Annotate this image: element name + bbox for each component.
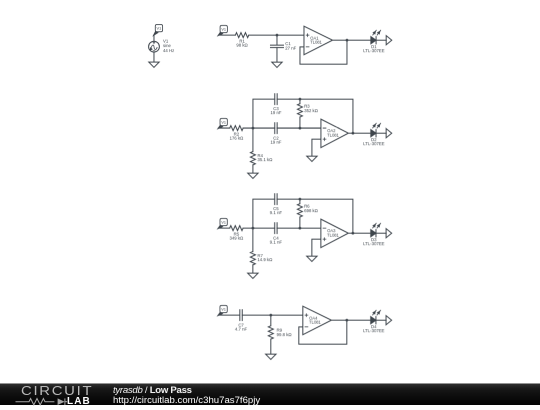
wire C1 to ground (276, 48, 278, 63)
wire feedback rail right segment (277, 99, 353, 133)
wire LED D1 to output terminal (376, 39, 386, 41)
resistor R7 14.9 k&#937; (250, 228, 273, 265)
footer bar (0, 383, 540, 405)
wire feedback rail right segment (277, 199, 353, 233)
capacitor C3 19 nF (feedback) (270, 94, 281, 115)
LED D2 LTL-307EE (363, 123, 385, 146)
svg-text:19 nF: 19 nF (270, 140, 281, 145)
resistor R1 98 k&#937; (235, 33, 248, 48)
svg-text:9.1 nF: 9.1 nF (270, 240, 283, 245)
node junction at op-amp output (346, 39, 349, 42)
resistor R5 349 k&#937; (230, 226, 245, 241)
resistor R2 176 k&#937; (230, 126, 245, 141)
wire feedback rail left segment (253, 198, 275, 200)
output terminal row 4 (386, 316, 392, 325)
svg-text:V1: V1 (221, 307, 226, 312)
net flag V1 row 2 (218, 118, 227, 128)
svg-text:176 kΩ: 176 kΩ (230, 135, 245, 140)
node junction at inverting input wire (299, 127, 302, 130)
logo diode (58, 398, 65, 405)
svg-text:TL081: TL081 (327, 133, 339, 138)
output terminal row 2 (386, 129, 392, 138)
svg-text:LTL-307EE: LTL-307EE (363, 141, 385, 146)
wire LED D4 to output terminal (376, 319, 386, 321)
node junction (276, 34, 279, 37)
svg-text:TL081: TL081 (310, 40, 322, 45)
wire op-amp OA2 non-inverting input to ground (312, 139, 321, 156)
svg-text:349 kΩ: 349 kΩ (230, 235, 245, 240)
svg-text:4.7 nF: 4.7 nF (235, 327, 248, 332)
capacitor C7 4.7 nF (235, 310, 248, 332)
net flag V1 row 3 (218, 218, 227, 228)
wire op-amp OA4 output to LED D4 (331, 319, 370, 321)
wire flag to R5 (218, 227, 229, 229)
node junction feedback rail (299, 98, 302, 101)
ground below C1 (272, 62, 282, 67)
capacitor C2 19 nF (series) (270, 123, 281, 145)
ground at V1 (149, 62, 159, 67)
node junction (251, 227, 254, 230)
wire feedback loop OA4 (299, 320, 347, 344)
resistor R6 698 k&#937; (297, 199, 318, 228)
wire C7 to op-amp OA4 (242, 314, 303, 316)
wire C2 to op-amp OA2 inverting input (277, 127, 321, 129)
capacitor C1 27 nF (270, 35, 296, 50)
net flag V1 row 4 (218, 305, 227, 315)
plot title (113, 385, 192, 396)
node junction feedback rail (298, 198, 301, 201)
svg-text:V1: V1 (221, 120, 226, 125)
svg-text:V1: V1 (221, 27, 226, 32)
wire op-amp OA1 output to LED D1 (333, 39, 371, 41)
svg-text:44 Hz: 44 Hz (163, 48, 174, 53)
svg-text:35.1 kΩ: 35.1 kΩ (257, 157, 273, 162)
wire op-amp OA3 non-inverting input to ground (312, 239, 321, 256)
op-amp OA1 TL081 (304, 26, 333, 55)
wire flag to C7 (218, 314, 240, 316)
plot url (113, 395, 260, 406)
wire R5 to node (243, 227, 275, 229)
svg-text:TL081: TL081 (309, 320, 321, 325)
wire op-amp OA3 output to LED D3 (348, 232, 370, 234)
node junction (269, 314, 272, 317)
svg-text:352 kΩ: 352 kΩ (304, 108, 319, 113)
svg-text:LTL-307EE: LTL-307EE (363, 241, 385, 246)
wire R7 to ground (252, 265, 254, 273)
svg-text:19 nF: 19 nF (270, 110, 281, 115)
wire node up to feedback rail (252, 99, 254, 128)
wire R2 to node (243, 127, 275, 129)
wire feedback rail left segment (253, 98, 275, 100)
node junction (252, 127, 255, 130)
resistor R9 99.8 k&#937; (268, 315, 292, 339)
wire node up to feedback rail (252, 199, 254, 228)
wire flag to R1 (218, 34, 235, 36)
svg-text:9.1 nF: 9.1 nF (270, 210, 283, 215)
node junction at op-amp output (345, 319, 348, 322)
ground at op-amp OA3 (307, 256, 317, 261)
LAB logo text (67, 396, 91, 407)
wire op-amp OA2 output to LED D2 (348, 132, 370, 134)
resistor R4 35.1 k&#937; (250, 128, 273, 165)
svg-text:99.8 kΩ: 99.8 kΩ (277, 332, 293, 337)
wire R4 to ground (252, 165, 254, 173)
svg-text:TL081: TL081 (327, 233, 339, 238)
voltage source V1 sine 44 Hz (149, 38, 175, 52)
node junction at op-amp output (352, 132, 355, 135)
svg-text:98 kΩ: 98 kΩ (236, 42, 248, 47)
output terminal row 3 (386, 229, 392, 238)
LED D1 LTL-307EE (363, 30, 385, 53)
svg-text:698 kΩ: 698 kΩ (304, 208, 319, 213)
svg-text:27 nF: 27 nF (285, 45, 296, 50)
CircuitLab logo text (20, 384, 92, 398)
net flag V1 row 1 (218, 25, 227, 35)
node junction at op-amp output (351, 232, 354, 235)
node junction at inverting input wire (298, 227, 301, 230)
svg-text:V1: V1 (221, 220, 226, 225)
capacitor C4 9.1 nF (series) (270, 223, 283, 245)
ground below R4 (248, 173, 258, 178)
resistor R3 352 k&#937; (297, 99, 318, 128)
LED D4 LTL-307EE (363, 310, 385, 333)
capacitor C5 9.1 nF (feedback) (270, 194, 283, 215)
svg-text:LTL-307EE: LTL-307EE (363, 328, 385, 333)
ground at op-amp OA2 (307, 156, 317, 161)
wire LED D3 to output terminal (376, 232, 386, 234)
svg-text:V1: V1 (157, 26, 162, 31)
wire R9 to ground (270, 339, 272, 354)
ground below R9 (266, 354, 276, 359)
op-amp OA2 TL081 (321, 119, 349, 147)
logo resistor (16, 399, 55, 405)
wire feedback loop OA1 (300, 40, 347, 64)
wire R1 to op-amp OA1 (249, 34, 304, 36)
logo resistor and diode symbol (0, 397, 100, 407)
wire C4 to op-amp OA3 inverting input (277, 227, 321, 229)
net flag V1 at source (154, 24, 163, 35)
svg-text:LTL-307EE: LTL-307EE (363, 48, 385, 53)
svg-text:14.9 kΩ: 14.9 kΩ (257, 257, 273, 262)
wire LED D2 to output terminal (376, 132, 386, 134)
wire V1 to ground (153, 52, 155, 62)
ground below R7 (248, 273, 258, 278)
wire source flag to V1 (153, 35, 155, 41)
output terminal row 1 (386, 36, 392, 45)
wire flag to R2 (218, 127, 229, 129)
LED D3 LTL-307EE (363, 223, 385, 246)
op-amp OA3 TL081 (321, 219, 349, 247)
op-amp OA4 TL081 (303, 306, 332, 335)
